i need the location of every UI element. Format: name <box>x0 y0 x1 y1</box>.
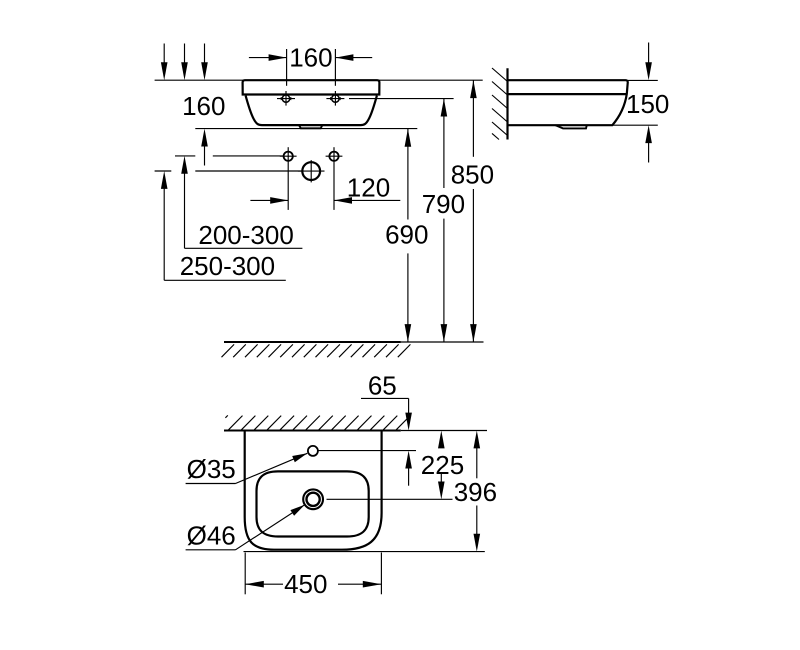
front view: top wall reference line <box>155 79 483 81</box>
bottom view: basin outer outline <box>245 431 382 550</box>
label Ø46 with leader <box>186 505 305 551</box>
dimension 200-300 <box>181 156 302 250</box>
svg-text:150: 150 <box>626 89 669 119</box>
dimension 65 <box>361 370 412 485</box>
mounting arrow 3 (down, x=204.5) <box>201 44 208 81</box>
front view: basin bowl outline <box>246 96 377 126</box>
floor line <box>224 341 401 343</box>
front view: basin rim outline <box>243 80 380 94</box>
dimension 160 (left, vertical) <box>182 91 225 166</box>
mounting arrow 2 (down, x=184.5) <box>181 44 188 81</box>
bottom view: bottom extension line <box>244 551 485 553</box>
dimension 850 <box>451 80 494 342</box>
svg-text:Ø35: Ø35 <box>187 454 236 484</box>
side view: rim bottom line <box>508 93 627 95</box>
big drain hole (front view) <box>298 160 325 182</box>
svg-text:65: 65 <box>368 370 397 400</box>
bottom view: wall line <box>224 430 401 432</box>
dimension 150 <box>626 43 669 163</box>
dimension 225 <box>421 431 464 500</box>
svg-text:790: 790 <box>422 189 465 219</box>
wall mounting hole right <box>326 147 343 210</box>
svg-text:200-300: 200-300 <box>198 220 293 250</box>
dimension 790 <box>422 99 465 342</box>
faucet hole symbol left (front view) <box>277 91 295 106</box>
dimension 690 <box>385 129 428 342</box>
svg-text:850: 850 <box>451 159 494 189</box>
side view: top extension line <box>628 79 658 81</box>
side view: basin outline <box>508 80 628 125</box>
side view: wall line <box>506 68 508 139</box>
svg-text:450: 450 <box>284 569 327 599</box>
extension line: faucet hole to 65 dim <box>318 450 416 452</box>
side view: bottom extension line <box>613 124 658 126</box>
faucet hole symbol right (front view) <box>326 91 344 106</box>
wall mounting hole left <box>280 147 297 210</box>
mounting arrow 1 (down, x=164.2) <box>161 44 168 81</box>
extension line: wall hole axis (y=155.9) <box>175 155 195 157</box>
dimension 160 (top, horizontal) <box>249 43 372 86</box>
bottom view: faucet hole <box>308 446 318 456</box>
svg-text:160: 160 <box>289 43 332 73</box>
extension line: drain to 225 dim <box>327 498 453 500</box>
dimension 120 <box>250 172 400 203</box>
extension line: faucet hole axis to 790 dim <box>349 98 454 100</box>
dimension 396 <box>454 431 497 552</box>
dimension 250-300 <box>161 171 286 281</box>
svg-text:225: 225 <box>421 450 464 480</box>
label Ø35 with leader <box>186 453 308 484</box>
svg-text:Ø46: Ø46 <box>187 520 236 550</box>
side view: wall hatching <box>492 68 508 140</box>
front view: bottom extension line <box>195 128 417 130</box>
side view: drain tab <box>556 125 587 128</box>
svg-text:690: 690 <box>385 219 428 249</box>
svg-text:396: 396 <box>454 477 497 507</box>
extension line: big hole axis (y=171) <box>155 170 172 172</box>
svg-text:120: 120 <box>347 172 390 202</box>
bottom view: drain hole <box>303 489 323 509</box>
dimension 450 <box>245 553 381 600</box>
bottom view: wall hatching <box>225 415 410 429</box>
floor hatching <box>222 344 411 357</box>
svg-text:160: 160 <box>182 91 225 121</box>
bottom view: inner bowl outline <box>257 471 369 536</box>
svg-text:250-300: 250-300 <box>180 251 275 281</box>
front view: drain tab <box>299 125 322 128</box>
